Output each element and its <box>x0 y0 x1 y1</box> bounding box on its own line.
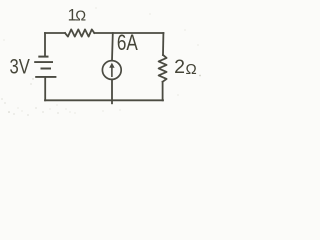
current source I1 circle <box>102 61 121 80</box>
resistor R2 zigzag (2 ohm) <box>159 55 167 82</box>
wire right upper lead <box>162 33 164 55</box>
wire left lower lead (battery negative to bottom) <box>44 77 46 100</box>
svg-text:2: 2 <box>174 56 185 78</box>
svg-text:6A: 6A <box>117 31 139 55</box>
current source I1 arrow (up) <box>109 63 114 77</box>
label 3V <box>10 56 31 79</box>
wire left upper lead (top corner to battery positive) <box>44 33 46 56</box>
wire top-right segment <box>94 32 163 34</box>
wire middle upper lead (top to current source) <box>111 33 114 61</box>
wire top-left segment <box>45 32 65 34</box>
label 6A <box>117 31 139 55</box>
label 2 ohm <box>174 56 197 78</box>
svg-text:Ω: Ω <box>186 61 197 78</box>
label 1 ohm <box>68 6 87 24</box>
svg-text:Ω: Ω <box>75 9 86 25</box>
resistor R1 zigzag (1 ohm) <box>65 29 94 36</box>
wire middle lower lead (current source to bottom) <box>111 80 113 104</box>
svg-text:3V: 3V <box>10 56 31 79</box>
wire bottom <box>45 99 163 101</box>
battery V1 3V plates <box>34 57 56 77</box>
scan speckles (noise) <box>1 8 201 116</box>
wire right lower lead <box>162 82 164 101</box>
